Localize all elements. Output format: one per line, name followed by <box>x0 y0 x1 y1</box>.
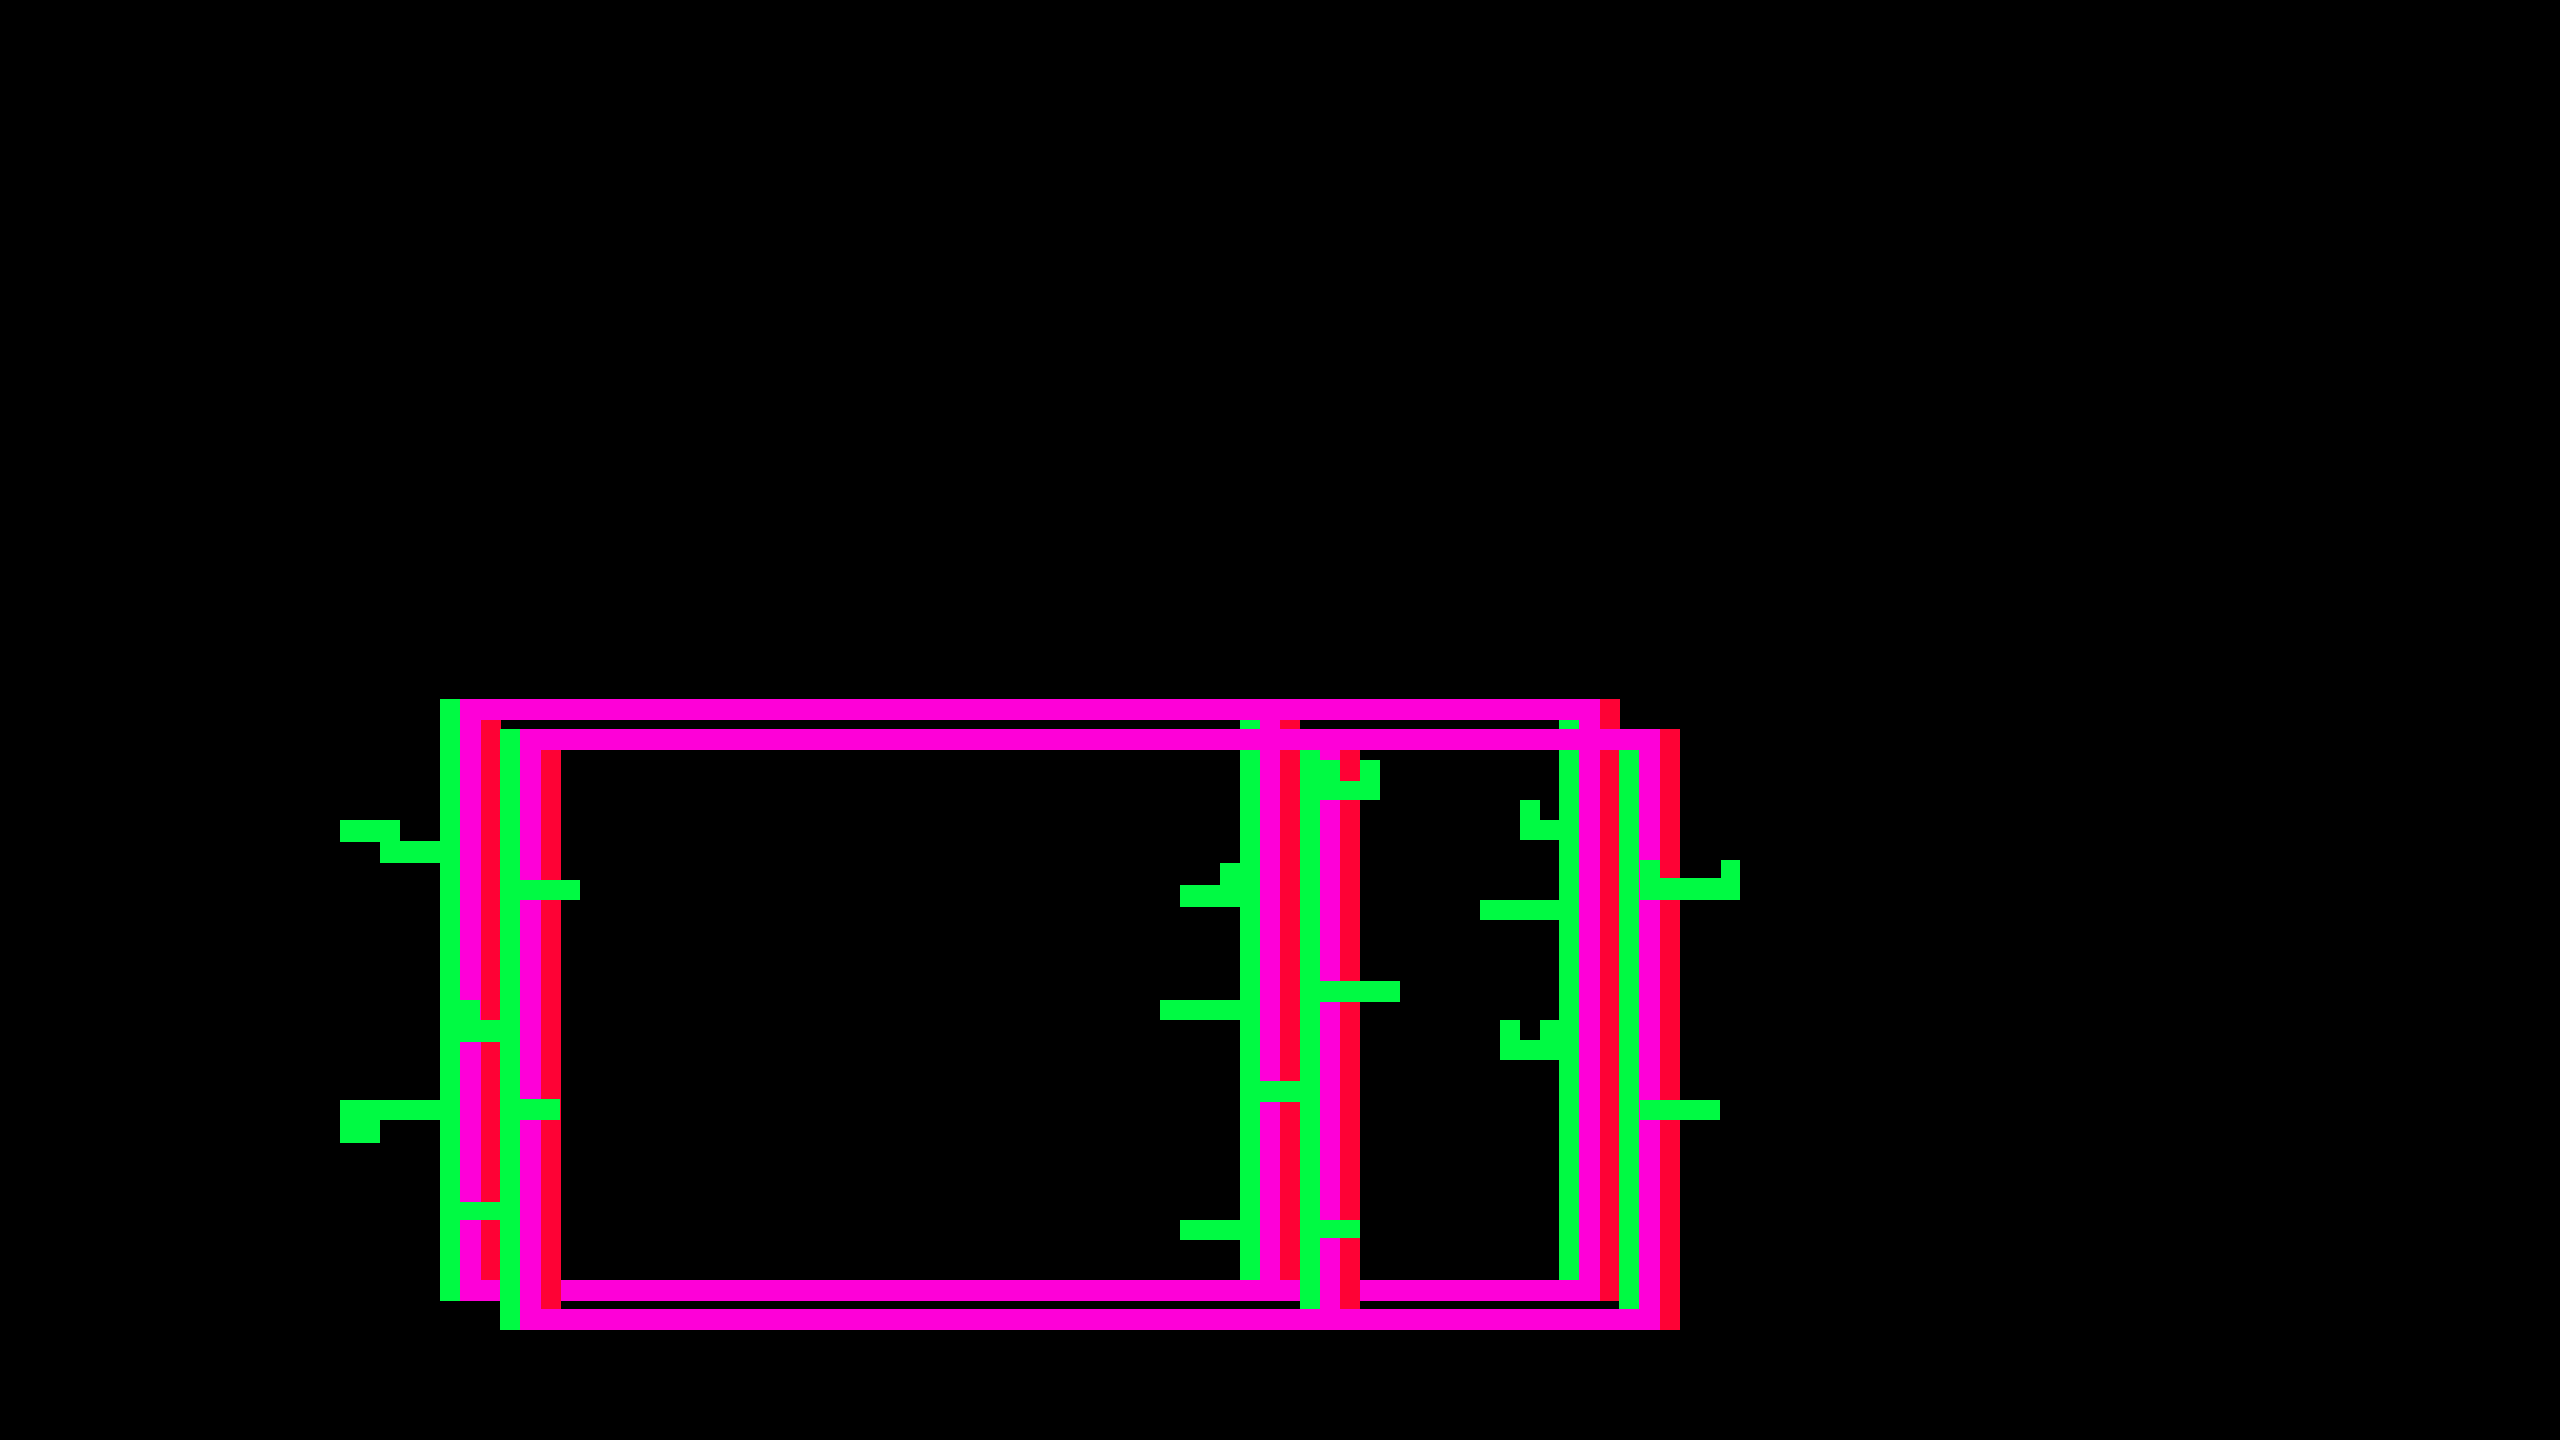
right edge pin bar lower <box>1640 1100 1720 1120</box>
right-side glyph, L-step foot <box>1540 820 1560 840</box>
IC U1 internal divider line, magenta <box>1260 699 1280 1301</box>
IC U2 internal divider line, magenta <box>1320 729 1340 1330</box>
IC U1 body outline, green echo <box>440 699 1580 1301</box>
wire joint between U1 and U2 left edges, horizontal piece <box>480 1020 520 1042</box>
right-side notch glyph, green U-shape <box>1500 1020 1560 1060</box>
IC U1 body outline, red echo <box>480 699 1620 1301</box>
right edge pin zigzag, bar <box>1640 878 1740 900</box>
IC U2 body outline, red echo <box>540 729 1680 1330</box>
IC U2 body outline, magenta <box>520 729 1660 1330</box>
pin 1 inner stub on U2 left edge <box>520 880 580 900</box>
IC U2 internal divider line, green echo <box>1300 729 1320 1330</box>
pin 2 wire, left side lower, down-step block <box>340 1120 380 1143</box>
divider pin b, left-pointing bar <box>1160 1000 1240 1020</box>
IC U2 internal divider line, red echo <box>1340 729 1360 1330</box>
divider pin f, right-pointing bar lower <box>1320 1220 1360 1238</box>
divider pin e, right-pointing bar <box>1320 981 1400 1002</box>
lower wire joint across U1 left border <box>460 1202 520 1220</box>
divider pin a, horizontal piece <box>1180 885 1220 907</box>
divider pin d, left-pointing bar lower <box>1180 1220 1240 1240</box>
divider pin c, inner stub right of divider <box>1260 1081 1300 1102</box>
IC U1 internal divider line, red echo <box>1280 699 1300 1301</box>
right-side glyph, L-step vertical piece <box>1520 800 1540 840</box>
notch glyph on divider, green U-shape <box>1320 760 1380 800</box>
notch glyph red bite overlay <box>1340 750 1360 782</box>
right edge pin zigzag, riser <box>1721 860 1740 878</box>
pin 2 wire, left side lower, outer segment <box>340 1100 440 1120</box>
IC U1 internal divider line, green echo <box>1240 699 1260 1301</box>
right-side notch glyph, black bite <box>1520 1020 1540 1040</box>
pin 1 wire, left side upper, jog segment <box>380 841 440 863</box>
right edge pin zigzag, block on U2 border <box>1640 860 1660 900</box>
pin 1 wire, left side upper, outer segment <box>340 820 400 842</box>
wire joint between U1 and U2 left edges, vertical piece <box>460 1000 480 1042</box>
IC U2 body outline, green echo <box>500 729 1640 1330</box>
right-side pin wire toward U1 right edge <box>1480 900 1560 920</box>
IC U1 body outline, magenta <box>460 699 1600 1301</box>
pin 2 inner stub on U2 left edge <box>520 1099 560 1120</box>
divider pin a, vertical piece <box>1220 863 1240 907</box>
